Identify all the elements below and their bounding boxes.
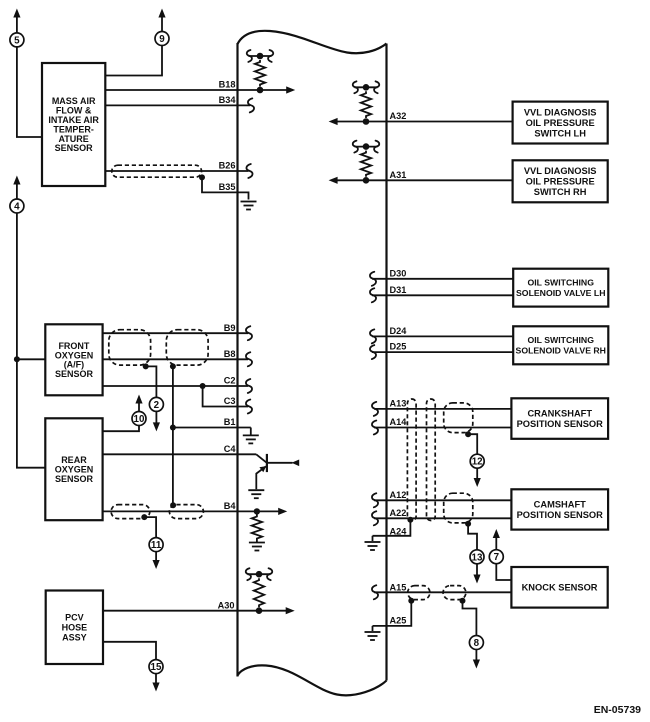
ground transistor emitter xyxy=(248,489,264,491)
ground A24 xyxy=(365,541,381,543)
wire pin C2 xyxy=(103,385,248,387)
svg-text:D25: D25 xyxy=(390,342,407,352)
wire shield drain to pin B35 xyxy=(202,177,249,199)
arrow up from node 5 xyxy=(16,18,18,34)
svg-text:CRANKSHAFT: CRANKSHAFT xyxy=(527,409,592,419)
resistor B18 pull-up xyxy=(249,55,272,57)
svg-text:4: 4 xyxy=(14,202,20,213)
arrow up from node 4 xyxy=(16,184,18,199)
circled node 8 xyxy=(469,636,483,650)
wire node4 rail down to oxygen sensors xyxy=(17,213,45,468)
svg-text:B26: B26 xyxy=(219,161,236,171)
transistor Q1 base bar xyxy=(266,454,268,472)
svg-text:A32: A32 xyxy=(390,111,407,121)
wire MAF pin B26 xyxy=(105,170,248,172)
box VVL DIAGNOSIS OIL PRESSURE SWITCH RH xyxy=(513,160,608,202)
resistor A30 pull-up xyxy=(248,573,271,575)
ground A25 xyxy=(365,631,381,633)
svg-text:12: 12 xyxy=(472,457,483,468)
circled node 7 xyxy=(489,550,503,564)
box CRANKSHAFT POSITION SENSOR xyxy=(511,398,608,439)
svg-text:D24: D24 xyxy=(390,326,408,336)
junction shield rail / rear shield 2 xyxy=(170,502,176,508)
svg-text:POSITION SENSOR: POSITION SENSOR xyxy=(517,419,604,429)
box KNOCK SENSOR xyxy=(511,567,607,608)
ECM band torn bottom edge xyxy=(238,665,387,695)
wire pin A31 xyxy=(337,179,513,181)
break symbol B34 xyxy=(248,98,254,112)
svg-text:HOSE: HOSE xyxy=(62,622,88,632)
transistor Q1 collector lead xyxy=(267,462,293,464)
arrow A31 signal xyxy=(329,177,338,184)
junction B4 internal resistor xyxy=(254,508,260,514)
svg-text:A31: A31 xyxy=(390,170,407,180)
break symbol B26 xyxy=(246,164,252,178)
wire shield2 drain rail down to B4 shield xyxy=(172,366,174,505)
ground B35 xyxy=(241,201,257,203)
svg-text:B1: B1 xyxy=(224,417,236,427)
shield knock cable 2 xyxy=(443,586,466,600)
shield rear oxygen cable 2 xyxy=(169,505,203,519)
svg-text:A12: A12 xyxy=(390,490,407,500)
junction crank shield drain / node 12 xyxy=(465,431,471,437)
svg-text:B35: B35 xyxy=(219,182,236,192)
shield crank/cam tall run 1 xyxy=(407,399,416,521)
break symbol A15 xyxy=(372,585,378,599)
wire pin D24 xyxy=(372,335,513,337)
svg-text:SENSOR: SENSOR xyxy=(55,143,94,153)
svg-text:OIL PRESSURE: OIL PRESSURE xyxy=(526,177,595,187)
shield crankshaft cable 2 xyxy=(444,403,473,433)
box REAR OXYGEN SENSOR xyxy=(45,418,102,520)
svg-text:11: 11 xyxy=(151,540,162,551)
svg-text:VVL DIAGNOSIS: VVL DIAGNOSIS xyxy=(524,107,597,117)
wire node5 to MAF sensor xyxy=(17,47,42,138)
svg-text:CAMSHAFT: CAMSHAFT xyxy=(534,500,586,510)
svg-text:B8: B8 xyxy=(224,349,236,359)
svg-text:2: 2 xyxy=(154,400,160,411)
svg-text:OIL PRESSURE: OIL PRESSURE xyxy=(526,118,595,128)
transistor Q1 collector arrow xyxy=(292,460,300,467)
svg-text:A24: A24 xyxy=(390,527,408,537)
wire MAF to node 9 xyxy=(105,45,162,75)
wire pin A14 xyxy=(374,427,511,429)
transistor Q1 emitter arrow xyxy=(259,466,266,472)
svg-text:B4: B4 xyxy=(224,501,237,511)
svg-text:A30: A30 xyxy=(218,600,235,610)
arrow up from node 9 xyxy=(161,18,163,32)
svg-text:D30: D30 xyxy=(390,268,407,278)
circled node 13 xyxy=(470,550,484,564)
svg-text:A22: A22 xyxy=(390,508,407,518)
circled node 2 xyxy=(149,397,163,411)
svg-text:VVL DIAGNOSIS: VVL DIAGNOSIS xyxy=(524,166,597,176)
resistor A32 pull-up xyxy=(355,86,378,88)
svg-text:C2: C2 xyxy=(224,376,236,386)
resistor A31 pull-up xyxy=(355,146,378,148)
wire pin A32 xyxy=(337,121,513,123)
arrow A32 signal xyxy=(329,118,338,125)
svg-text:A14: A14 xyxy=(390,417,408,427)
svg-text:PCV: PCV xyxy=(65,612,84,622)
box VVL DIAGNOSIS OIL PRESSURE SWITCH LH xyxy=(513,102,608,144)
svg-text:7: 7 xyxy=(494,552,500,563)
break symbol B8 xyxy=(246,352,252,366)
junction A22 shield drain xyxy=(407,517,413,523)
svg-text:A15: A15 xyxy=(390,582,407,592)
svg-text:A13: A13 xyxy=(390,399,407,409)
arrow down from node 8 xyxy=(475,649,477,660)
arrow down from node 11 xyxy=(155,551,157,560)
arrow down from node 15 xyxy=(155,673,157,683)
wire rear oxygen to node 10 xyxy=(103,425,139,431)
junction shield drain B26 xyxy=(199,174,205,180)
ECM connector band right edge xyxy=(385,44,387,681)
break symbol D24 xyxy=(370,329,376,343)
wire pin D25 xyxy=(372,351,513,353)
arrow A30 signal xyxy=(286,607,295,614)
svg-text:ASSY: ASSY xyxy=(62,632,87,642)
svg-text:SOLENOID VALVE RH: SOLENOID VALVE RH xyxy=(516,346,606,356)
box OIL SWITCHING SOLENOID VALVE LH xyxy=(513,269,608,307)
ECM connector band left edge xyxy=(236,43,238,677)
junction shield1 drain / node 11 xyxy=(141,514,147,520)
break symbol D25 xyxy=(370,345,376,359)
wire shield drain to node 11 xyxy=(144,517,156,538)
shield of MAF sensor cable xyxy=(112,165,202,177)
ground B4 resistor xyxy=(256,541,258,543)
break symbol A14 xyxy=(372,421,378,435)
wire pin A30 xyxy=(103,610,287,612)
svg-text:SOLENOID VALVE LH: SOLENOID VALVE LH xyxy=(516,288,605,298)
wire pin C4 xyxy=(103,453,257,455)
box MASS AIR FLOW & INTAKE AIR TEMPERATURE SENSOR xyxy=(42,63,105,186)
break symbol A12 xyxy=(372,493,378,507)
wire crank shield drain to node 12 xyxy=(468,434,477,454)
transistor Q1 emitter lead xyxy=(256,466,266,489)
junction shield rail / pin B1 xyxy=(170,425,176,431)
svg-text:SWITCH RH: SWITCH RH xyxy=(534,187,587,197)
break symbol B9 xyxy=(246,326,252,340)
shield front oxygen cable 1 xyxy=(109,330,151,365)
junction knock shield1 drain xyxy=(408,598,414,604)
shield front oxygen cable 2 xyxy=(166,330,208,365)
shield camshaft cable 2 xyxy=(444,493,473,523)
wire pin A22 xyxy=(374,517,511,519)
box OIL SWITCHING SOLENOID VALVE RH xyxy=(513,326,608,364)
wire pin B8 xyxy=(103,358,248,360)
svg-text:B9: B9 xyxy=(224,323,236,333)
circled node 15 xyxy=(149,660,163,674)
wire pin A15 xyxy=(374,591,511,593)
break symbol C2 xyxy=(246,379,252,393)
break symbol D30 xyxy=(370,272,376,286)
svg-text:C3: C3 xyxy=(224,396,236,406)
circled node 9 xyxy=(155,32,169,46)
svg-text:EN-05739: EN-05739 xyxy=(594,704,641,716)
arrow down from node 13 xyxy=(476,564,478,575)
ground B1 xyxy=(243,434,259,436)
svg-text:KNOCK SENSOR: KNOCK SENSOR xyxy=(522,583,598,593)
wire B1 to internal ground xyxy=(250,428,252,435)
svg-text:C4: C4 xyxy=(224,444,237,454)
wire pin A12 xyxy=(374,499,511,501)
shield rear oxygen cable 1 xyxy=(111,505,150,519)
wire node 7 to knock sensor xyxy=(496,563,511,580)
wire pin C3 xyxy=(203,386,248,407)
arrow B4 signal xyxy=(278,508,287,515)
box PCV HOSE ASSY xyxy=(46,591,103,665)
junction node4 rail / front oxygen sensor xyxy=(14,356,20,362)
svg-text:SENSOR: SENSOR xyxy=(55,369,94,379)
circled node 11 xyxy=(149,538,163,552)
wire pin D30 xyxy=(372,278,513,280)
svg-text:B34: B34 xyxy=(219,95,237,105)
svg-text:OIL SWITCHING: OIL SWITCHING xyxy=(528,278,595,288)
wire knock shield2 drain to node 8 xyxy=(463,601,477,636)
arrow up from node 10 xyxy=(138,403,140,412)
svg-text:15: 15 xyxy=(151,662,162,673)
arrow down from node 12 xyxy=(476,468,478,478)
wire A22 drain to pin A24 xyxy=(373,520,411,536)
svg-text:10: 10 xyxy=(134,414,145,425)
svg-text:SWITCH LH: SWITCH LH xyxy=(534,128,586,138)
svg-text:5: 5 xyxy=(14,35,20,46)
wire pin A13 xyxy=(374,408,511,410)
shield knock cable 1 xyxy=(408,586,430,600)
junction shield2 drain xyxy=(170,363,176,369)
svg-text:A25: A25 xyxy=(390,616,407,626)
wire pin D31 xyxy=(372,294,513,296)
wire MAF pin B34 xyxy=(105,104,250,106)
resistor B4 internal xyxy=(252,515,262,541)
junction knock shield2 drain / node 8 xyxy=(460,598,466,604)
wire cam shield drain to node 13 xyxy=(468,524,477,550)
junction C2 / C3 branch xyxy=(200,383,206,389)
wire shield1 drain to node 2 xyxy=(146,366,157,397)
shield crank/cam tall run 2 xyxy=(427,399,436,521)
wire A25 to internal ground xyxy=(372,626,374,631)
wire knock shield1 drain to pin A25 xyxy=(373,601,412,626)
arrow down from node 2 xyxy=(155,411,157,423)
ECM band torn top edge xyxy=(238,31,387,53)
break symbol A13 xyxy=(372,402,378,416)
junction shield1 drain xyxy=(143,363,149,369)
svg-text:8: 8 xyxy=(474,638,480,649)
circled node 12 xyxy=(470,454,484,468)
break symbol C3 xyxy=(246,400,252,414)
arrow B18 signal xyxy=(286,86,295,93)
wire A24 to internal ground xyxy=(372,536,374,541)
transistor Q1 base lead xyxy=(256,454,266,462)
svg-text:D31: D31 xyxy=(390,285,407,295)
wire pin B1 xyxy=(173,427,251,429)
arrow up from node 7 xyxy=(495,538,497,551)
box CAMSHAFT POSITION SENSOR xyxy=(511,489,608,529)
svg-text:POSITION SENSOR: POSITION SENSOR xyxy=(517,510,604,520)
circled node 5 xyxy=(10,33,24,47)
wire pin B4 xyxy=(103,510,279,512)
junction cam shield drain / node 13 xyxy=(465,521,471,527)
svg-text:9: 9 xyxy=(159,34,165,45)
svg-text:OIL SWITCHING: OIL SWITCHING xyxy=(528,335,595,345)
svg-text:13: 13 xyxy=(472,552,483,563)
box FRONT OXYGEN (A/F) SENSOR xyxy=(45,324,102,395)
wire PCV to node 15 xyxy=(103,642,156,660)
circled node 4 xyxy=(10,199,24,213)
circled node 10 xyxy=(132,412,146,426)
break symbol D31 xyxy=(370,288,376,302)
svg-text:B18: B18 xyxy=(219,80,236,90)
break symbol A22 xyxy=(372,511,378,525)
wire branch to front oxygen sensor xyxy=(17,358,45,360)
wire pin B9 xyxy=(103,332,248,334)
svg-text:SENSOR: SENSOR xyxy=(55,474,94,484)
wire MAF pin B18 xyxy=(105,89,287,91)
